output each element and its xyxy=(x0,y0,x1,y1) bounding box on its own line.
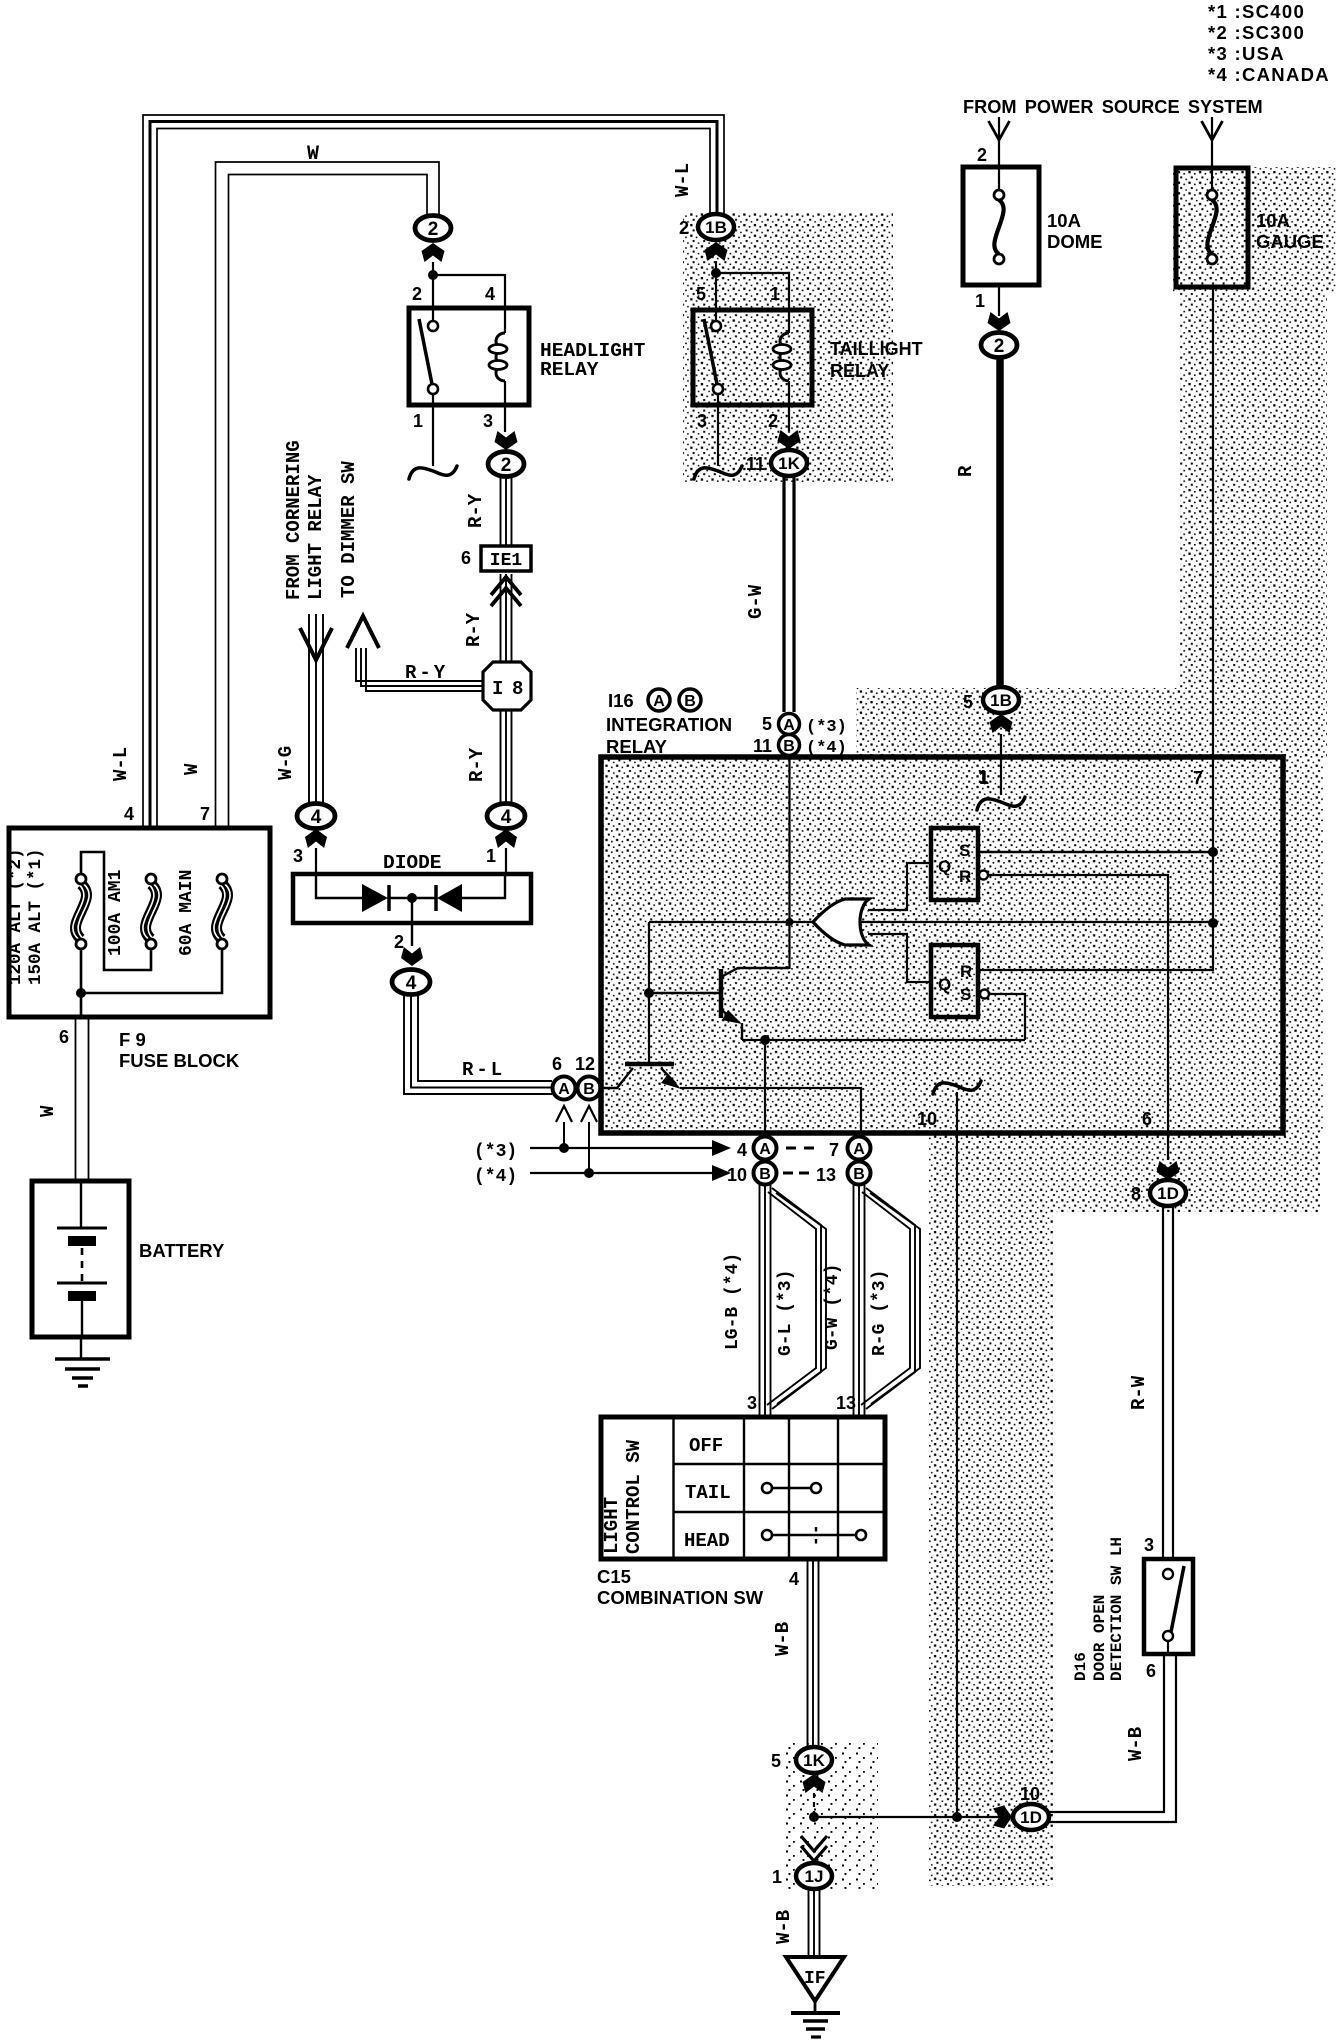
power feed arrow to gauge fuse xyxy=(1211,117,1213,190)
double chevron arrow down to 1J xyxy=(801,1846,827,1861)
svg-text:B: B xyxy=(684,693,696,710)
svg-text:G-L (*3): G-L (*3) xyxy=(776,1270,796,1356)
svg-text:10A: 10A xyxy=(1047,210,1081,231)
svg-text:(*3): (*3) xyxy=(806,718,847,737)
svg-text:LG-B (*4): LG-B (*4) xyxy=(723,1253,743,1350)
svg-text:6: 6 xyxy=(59,1027,69,1047)
svg-text:R-Y: R-Y xyxy=(405,662,448,684)
halftone column below integration relay box xyxy=(929,1133,1053,1886)
svg-text:1J: 1J xyxy=(805,1867,824,1886)
wire emitter net down to connector A pin 4 xyxy=(764,1040,766,1137)
svg-text:11: 11 xyxy=(746,454,765,474)
svg-text:Q: Q xyxy=(938,975,951,994)
Q2 emitter net to internal ground xyxy=(680,1088,861,1131)
connector 4 (diode pin 1) xyxy=(487,804,525,829)
wire dome fuse to connector 2 xyxy=(998,285,1000,316)
wire W-L triple from fuse block pin 4 to connector 1B xyxy=(143,115,724,828)
svg-text:12: 12 xyxy=(575,1054,595,1074)
svg-text:4: 4 xyxy=(124,804,134,824)
TAIL row contacts xyxy=(762,1483,772,1493)
taillight relay coil xyxy=(788,310,790,333)
wire R-G hexagon bundle (*3) xyxy=(861,1192,910,1405)
svg-text:1D: 1D xyxy=(1020,1808,1042,1827)
svg-text:TO DIMMER SW: TO DIMMER SW xyxy=(338,461,360,598)
(*4) selector line with arrow xyxy=(530,1172,712,1174)
fuse 10A GAUGE xyxy=(1176,168,1248,287)
diode D2 (right) xyxy=(434,885,438,911)
arrow into 1B from integration relay xyxy=(990,714,1013,733)
svg-text:10A: 10A xyxy=(1256,210,1290,231)
svg-text:150A ALT (*1): 150A ALT (*1) xyxy=(26,848,46,985)
svg-text:6: 6 xyxy=(461,548,471,568)
svg-text:A: A xyxy=(783,717,795,734)
svg-text:IE1: IE1 xyxy=(490,551,523,571)
svg-text:4: 4 xyxy=(501,807,512,828)
connector 2 (dome) xyxy=(981,333,1017,358)
svg-text:G-W: G-W xyxy=(745,584,767,619)
svg-text:IF: IF xyxy=(804,1969,826,1989)
junction octagon I 8 xyxy=(483,662,531,710)
svg-text:RELAY: RELAY xyxy=(540,359,599,381)
svg-text:W-L: W-L xyxy=(110,747,132,781)
wire R-Y triple octagon down to connector 4 xyxy=(500,710,502,804)
battery ground symbol xyxy=(55,1357,110,1361)
wire connector 2 to headlight relay pin 2 xyxy=(432,262,434,321)
latch U2 S bubble route to Q1 emitter net xyxy=(989,994,1025,1040)
power feed arrow to dome fuse xyxy=(998,117,1000,190)
svg-text:1D: 1D xyxy=(1157,1184,1179,1203)
svg-text:R-G (*3): R-G (*3) xyxy=(870,1270,890,1356)
arrow up to connector A xyxy=(563,1122,565,1146)
(*3) selector line with arrow xyxy=(530,1147,712,1149)
dashed wire 1K to junction xyxy=(813,1793,815,1813)
svg-text:120A ALT (*2): 120A ALT (*2) xyxy=(6,848,26,985)
svg-text:1B: 1B xyxy=(705,218,727,237)
svg-text:LIGHT: LIGHT xyxy=(601,1497,623,1554)
svg-text:*1 :SC400: *1 :SC400 xyxy=(1208,1,1305,22)
OR gate U3 xyxy=(813,899,869,945)
wire W-G triple from cornering light relay xyxy=(308,614,310,803)
svg-text:2: 2 xyxy=(994,336,1005,357)
diode center junction xyxy=(389,897,436,899)
svg-text:B: B xyxy=(853,1166,865,1183)
svg-text:4: 4 xyxy=(311,807,322,828)
wire LG-B triple connector B to switch pin 3 xyxy=(759,1185,761,1417)
svg-text:13: 13 xyxy=(816,1165,836,1185)
connector A pin 6 xyxy=(553,1077,576,1100)
wire W double fuse block to battery xyxy=(75,1017,77,1181)
connector 4 (diode pin 3) xyxy=(297,804,335,829)
latch U2 Q output route to OR gate xyxy=(868,934,931,982)
headlight relay coil xyxy=(504,310,506,333)
latch U2 R input wire xyxy=(978,969,1213,971)
svg-text:*2 :SC300: *2 :SC300 xyxy=(1208,22,1305,43)
fuse 10A DOME xyxy=(963,167,1039,285)
svg-text:R-Y: R-Y xyxy=(465,493,487,528)
double chevron arrow up into IE1 xyxy=(500,574,502,663)
integration relay box xyxy=(601,757,1283,1133)
svg-text:1: 1 xyxy=(975,291,985,311)
svg-text:1: 1 xyxy=(486,846,496,866)
wire junction to connector 1D pin 10 xyxy=(814,1816,1012,1818)
svg-text:DIODE: DIODE xyxy=(383,852,442,874)
svg-text:6: 6 xyxy=(552,1054,562,1074)
halftone region around taillight relay xyxy=(683,212,893,482)
svg-text:RELAY: RELAY xyxy=(830,361,889,381)
fuse block F9 box xyxy=(9,828,270,1017)
pin B wire down to transistor Q1 collector xyxy=(788,757,790,969)
svg-text:I: I xyxy=(492,678,503,700)
fuse block internal link wire xyxy=(81,852,151,970)
svg-text:W: W xyxy=(307,143,319,166)
latch U1 (S-R) xyxy=(931,828,978,900)
halftone region around gauge fuse xyxy=(1173,167,1336,292)
svg-text:1K: 1K xyxy=(803,1751,825,1770)
relay HEADLIGHT RELAY box xyxy=(409,308,529,405)
svg-text:1B: 1B xyxy=(990,691,1012,710)
svg-text:10: 10 xyxy=(727,1165,747,1185)
svg-text:4: 4 xyxy=(485,284,495,304)
fuse 60A MAIN xyxy=(217,884,228,939)
wire R-L triple from connector 4 to integration relay xyxy=(404,994,552,1094)
wire R-Y triple octagon to dimmer switch arrow xyxy=(356,648,483,681)
wire W-B triple from switch pin 4 xyxy=(807,1559,809,1748)
battery cells xyxy=(80,1181,82,1228)
latch U1 S input wire xyxy=(978,851,1213,853)
svg-text:6: 6 xyxy=(1146,1661,1156,1681)
svg-text:5: 5 xyxy=(762,714,772,734)
svg-text:LIGHT RELAY: LIGHT RELAY xyxy=(305,474,327,600)
svg-text:RELAY: RELAY xyxy=(606,736,668,757)
wire R thick from connector 2 to 1B xyxy=(996,357,1004,689)
svg-text:2: 2 xyxy=(394,932,404,952)
switch C15 COMBINATION SW box xyxy=(601,1417,885,1559)
connector 4 (diode pin 2) xyxy=(392,970,430,995)
svg-text:D16: D16 xyxy=(1072,1652,1090,1681)
svg-text:(*4): (*4) xyxy=(474,1167,517,1187)
pin 10 break squiggle and wire xyxy=(933,1081,981,1094)
latch U1 R input wire to pin 6 exit xyxy=(989,875,1168,1160)
OR gate output net line xyxy=(649,921,1213,923)
svg-text:B: B xyxy=(583,1081,595,1098)
ground symbol xyxy=(814,2001,817,2013)
svg-text:7: 7 xyxy=(200,804,210,824)
transistor Q2 xyxy=(625,1062,674,1067)
svg-text:Q: Q xyxy=(938,857,951,876)
Q1 emitter net horizontal xyxy=(742,1039,1025,1041)
combination switch grid lines xyxy=(672,1417,674,1559)
connector B pin 12 xyxy=(578,1077,601,1100)
svg-text:2: 2 xyxy=(679,218,689,238)
svg-text:W-B: W-B xyxy=(772,1622,794,1656)
svg-text:(*3): (*3) xyxy=(474,1142,517,1162)
svg-text:A: A xyxy=(653,693,665,710)
svg-text:INTEGRATION: INTEGRATION xyxy=(606,714,732,735)
wire W-B double from door switch to 1D pin 10 xyxy=(1049,1654,1164,1812)
svg-text:7: 7 xyxy=(829,1140,839,1160)
HEAD row contacts xyxy=(762,1530,772,1540)
halftone fill of integration relay box xyxy=(603,757,1283,1133)
wire taillight relay pin 2 down xyxy=(788,405,790,431)
transistor Q1 xyxy=(719,969,724,1018)
pin 1 wire of integration relay to 1B xyxy=(1000,734,1002,795)
connector 2 (headlight feed) xyxy=(415,216,451,241)
svg-text:R-W: R-W xyxy=(1128,1375,1150,1410)
wire W-B triple 1J to ground xyxy=(808,1889,810,1955)
branch wire to headlight relay pin 4 xyxy=(433,275,505,310)
svg-text:R: R xyxy=(955,465,977,477)
arrow up to connector B xyxy=(588,1122,590,1171)
svg-text:10: 10 xyxy=(917,1109,937,1129)
svg-text:4: 4 xyxy=(406,973,417,994)
svg-text:3: 3 xyxy=(697,411,707,431)
taillight relay switch xyxy=(711,321,721,331)
battery box xyxy=(32,1181,129,1337)
svg-text:3: 3 xyxy=(747,1393,757,1413)
svg-text:A: A xyxy=(558,1081,570,1098)
diode pin 2 wire down xyxy=(411,898,413,946)
wire G-W double thick from 1K to pin A xyxy=(782,475,785,712)
wire headlight relay pin 1 to break xyxy=(432,394,434,466)
diode internal wiring left xyxy=(316,874,362,898)
wire R-Y triple connector 2 to junction IE1 xyxy=(500,476,502,546)
svg-text:11: 11 xyxy=(753,736,772,756)
halftone region around connector 1D pin 8 xyxy=(1053,1133,1320,1212)
svg-text:B: B xyxy=(783,738,795,755)
latch U2 (R-S) xyxy=(931,945,978,1017)
halftone strip right of integration relay box xyxy=(1283,757,1323,1133)
svg-text:FROM CORNERING: FROM CORNERING xyxy=(283,440,305,600)
halftone column below gauge fuse xyxy=(1180,292,1327,688)
svg-text:3: 3 xyxy=(483,411,493,431)
svg-text:R-L: R-L xyxy=(462,1059,505,1081)
svg-text:C15: C15 xyxy=(597,1566,631,1587)
diode internal wiring right xyxy=(462,874,505,898)
svg-text:2: 2 xyxy=(768,411,778,431)
fuse 120A/150A ALT xyxy=(76,884,87,939)
branch wire to taillight relay pin 1 xyxy=(716,273,789,311)
svg-text:DETECTION SW LH: DETECTION SW LH xyxy=(1108,1537,1126,1681)
wire from gauge fuse into integration relay pin 7 xyxy=(1212,287,1214,971)
svg-text:GAUGE: GAUGE xyxy=(1256,231,1324,252)
svg-text:W-B: W-B xyxy=(773,1910,795,1944)
svg-text:5: 5 xyxy=(696,284,706,304)
arrow from cornering light relay xyxy=(300,628,332,660)
arrow down into connector 1D pin 8 xyxy=(1157,1161,1180,1180)
latch U1 Q output route to OR gate xyxy=(868,863,931,910)
battery ground wire xyxy=(80,1337,82,1359)
svg-text:S: S xyxy=(960,985,971,1004)
svg-text:W: W xyxy=(37,1105,59,1117)
wire G-L hexagon bundle (*3) xyxy=(767,1192,816,1405)
svg-text:10: 10 xyxy=(1020,1784,1040,1804)
svg-text:W-B: W-B xyxy=(1125,1727,1147,1761)
svg-text:CONTROL SW: CONTROL SW xyxy=(623,1439,645,1554)
svg-text:R-Y: R-Y xyxy=(466,747,488,782)
svg-text:8: 8 xyxy=(1131,1184,1141,1204)
svg-text:B: B xyxy=(759,1166,771,1183)
svg-text:R-Y: R-Y xyxy=(463,612,485,647)
svg-text:1: 1 xyxy=(770,284,780,304)
svg-text:DOME: DOME xyxy=(1047,231,1103,252)
svg-text:1: 1 xyxy=(979,768,989,788)
svg-text:*3 :USA: *3 :USA xyxy=(1208,43,1285,64)
svg-text:1: 1 xyxy=(413,411,423,431)
svg-text:TAIL: TAIL xyxy=(685,1482,731,1504)
arrow into 1B xyxy=(705,242,728,261)
arrow TO DIMMER SW xyxy=(347,616,379,648)
svg-text:OFF: OFF xyxy=(689,1435,723,1457)
svg-text:W-L: W-L xyxy=(672,163,694,197)
diode D1 D2 box xyxy=(293,874,531,923)
wire break squiggle pin 1 xyxy=(977,797,1025,810)
svg-text:5: 5 xyxy=(771,1751,781,1771)
wire taillight relay pin 3 to break xyxy=(717,394,719,466)
headlight relay switch xyxy=(428,321,438,331)
svg-text:FROM POWER SOURCE SYSTEM: FROM POWER SOURCE SYSTEM xyxy=(963,97,1263,117)
svg-text:60A MAIN: 60A MAIN xyxy=(177,870,197,956)
connector 2 below headlight relay xyxy=(488,452,524,477)
halftone band above integration relay box xyxy=(856,688,1327,757)
svg-text:FUSE BLOCK: FUSE BLOCK xyxy=(119,1050,240,1071)
svg-text:BATTERY: BATTERY xyxy=(139,1240,225,1261)
svg-text:13: 13 xyxy=(836,1393,856,1413)
svg-text:G-W (*4): G-W (*4) xyxy=(823,1264,843,1350)
wire headlight relay pin 3 down xyxy=(504,405,506,432)
svg-text:R: R xyxy=(960,962,972,981)
svg-text:W: W xyxy=(181,763,203,775)
svg-text:4: 4 xyxy=(737,1140,747,1160)
svg-text:3: 3 xyxy=(293,846,303,866)
wire G-W triple connector B to switch pin 13 xyxy=(853,1185,855,1417)
svg-text:A: A xyxy=(853,1141,865,1158)
sparse halftone near connector 1K xyxy=(782,1742,878,1890)
svg-text:2: 2 xyxy=(428,219,439,240)
svg-text:1: 1 xyxy=(772,1867,782,1887)
switch D16 DOOR OPEN DETECTION SW LH xyxy=(1144,1559,1193,1654)
svg-text:*4 :CANADA: *4 :CANADA xyxy=(1208,64,1330,85)
relay TAILLIGHT RELAY box xyxy=(693,310,812,405)
transistor Q1 base net xyxy=(648,922,650,1062)
svg-text:TAILLIGHT: TAILLIGHT xyxy=(830,339,923,359)
svg-text:1K: 1K xyxy=(778,454,800,473)
svg-text:HEAD: HEAD xyxy=(684,1530,730,1552)
svg-text:W-G: W-G xyxy=(275,746,297,780)
svg-text:COMBINATION SW: COMBINATION SW xyxy=(597,1587,764,1608)
wire R-W double to door switch xyxy=(1162,1206,1164,1559)
svg-text:R: R xyxy=(959,867,971,886)
svg-text:DOOR OPEN: DOOR OPEN xyxy=(1091,1595,1109,1681)
svg-text:F 9: F 9 xyxy=(119,1029,146,1050)
svg-text:100A AM1: 100A AM1 xyxy=(106,869,126,956)
junction dots on gauge wire xyxy=(1208,847,1218,857)
fuse block bus wire xyxy=(81,949,222,993)
fuse 100A AM1 xyxy=(146,884,157,939)
svg-text:5: 5 xyxy=(963,692,973,712)
svg-text:2: 2 xyxy=(412,284,422,304)
svg-text:I16: I16 xyxy=(608,690,634,711)
arrow up into 1K xyxy=(803,1774,826,1793)
svg-text:3: 3 xyxy=(1144,1535,1154,1555)
svg-text:A: A xyxy=(759,1141,771,1158)
svg-text:2: 2 xyxy=(501,455,512,476)
wire 1B to taillight relay pin 5 xyxy=(715,261,717,322)
svg-text:8: 8 xyxy=(512,678,523,700)
wire W double from fuse block pin 7 to connector 2 xyxy=(216,162,440,828)
svg-text:7: 7 xyxy=(1193,768,1203,788)
arrow into connector 2 xyxy=(422,243,445,262)
svg-text:S: S xyxy=(959,841,970,860)
svg-text:2: 2 xyxy=(977,145,987,165)
diode D1 (left) xyxy=(362,884,388,912)
svg-text:6: 6 xyxy=(1142,1109,1152,1129)
ground triangle IF xyxy=(786,1957,844,2001)
svg-text:4: 4 xyxy=(789,1569,799,1589)
